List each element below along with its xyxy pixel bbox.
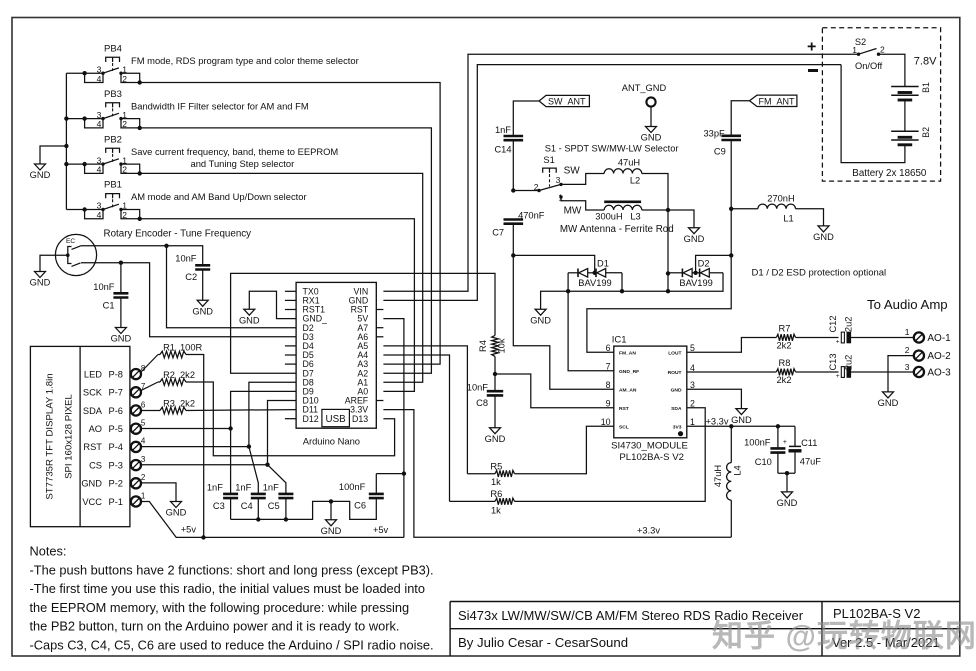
svg-text:Save current frequency, band,: Save current frequency, band, theme to E… — [131, 146, 338, 157]
svg-text:2: 2 — [690, 399, 695, 409]
svg-text:and Tuning Step selector: and Tuning Step selector — [191, 158, 295, 169]
wire LOUT to R7 — [687, 338, 777, 353]
svg-text:BAV199: BAV199 — [679, 278, 712, 288]
capacitor C5 1nF — [278, 494, 293, 498]
svg-text:P-7: P-7 — [109, 388, 123, 398]
inductor L2 47uH — [604, 169, 642, 174]
pushbutton PB1 — [66, 180, 306, 221]
svg-text:P-1: P-1 — [109, 497, 123, 507]
wire encoder A to Arduino D2 and C2 — [81, 246, 203, 265]
capacitor C8 10nF — [494, 374, 496, 391]
ground GND (C1) — [115, 328, 126, 334]
svg-text:2: 2 — [141, 473, 146, 482]
svg-text:-The first time you use this r: -The first time you use this radio, the … — [30, 581, 425, 596]
svg-text:PB4: PB4 — [104, 43, 122, 54]
resistor R5 1k — [467, 473, 495, 475]
connector pin P-6 of TFT — [131, 405, 141, 415]
svg-text:6: 6 — [141, 400, 146, 409]
svg-text:10: 10 — [601, 417, 611, 427]
svg-text:LED: LED — [84, 369, 102, 379]
wire P-4 to Arduino D8 and C4 — [141, 446, 249, 448]
connector pin P-5 of TFT — [131, 424, 141, 434]
ground GND (Arduino GND_) — [244, 309, 255, 315]
capacitor C3 1nF — [223, 494, 238, 498]
svg-text:Bandwidth IF Filter selector f: Bandwidth IF Filter selector for AM and … — [131, 100, 309, 111]
resistor R1 100R — [160, 351, 186, 358]
svg-text:GND: GND — [731, 415, 752, 425]
svg-text:C1: C1 — [103, 300, 115, 310]
svg-text:2: 2 — [880, 45, 885, 55]
svg-text:D1: D1 — [597, 259, 609, 269]
wire antenna node to ground — [668, 210, 694, 228]
svg-text:GND: GND — [878, 398, 899, 408]
capacitor C6 100nF — [369, 494, 384, 498]
svg-text:1: 1 — [690, 417, 695, 427]
svg-text:MW Antenna - Ferrite Rod: MW Antenna - Ferrite Rod — [560, 224, 674, 235]
svg-text:AO-2: AO-2 — [927, 351, 951, 362]
svg-text:D13: D13 — [352, 414, 368, 424]
svg-text:SDA: SDA — [83, 406, 103, 416]
wire IC1 GND pin3 to ground — [687, 389, 742, 408]
svg-text:EC: EC — [66, 238, 75, 245]
svg-text:2: 2 — [122, 74, 127, 84]
module U1 Arduino Nano — [285, 282, 384, 446]
wire R3 to Arduino D11 — [186, 409, 296, 412]
svg-text:C12: C12 — [828, 315, 838, 332]
svg-text:B2: B2 — [921, 127, 931, 138]
svg-text:100nF: 100nF — [339, 482, 366, 492]
svg-text:3: 3 — [556, 175, 561, 185]
wire battery minus to Arduino GND — [383, 65, 841, 301]
connector AO-1 — [914, 332, 924, 342]
svg-text:4: 4 — [97, 210, 102, 220]
svg-text:+: + — [836, 373, 840, 380]
wire P-6 to R3 — [141, 410, 160, 412]
svg-text:RST: RST — [619, 406, 629, 412]
svg-text:C5: C5 — [268, 501, 280, 511]
capacitor C9 33pF — [721, 136, 741, 140]
ground GND (IC1 pin3) — [736, 409, 747, 415]
svg-text:6: 6 — [606, 343, 611, 353]
wire C13 to AO-3 — [849, 371, 914, 373]
svg-text:S1: S1 — [543, 155, 554, 165]
svg-text:ST7735R TFT DISPLAY 1.8in: ST7735R TFT DISPLAY 1.8in — [45, 373, 56, 499]
inductor L1 270nH — [758, 204, 796, 209]
svg-text:SI4730_MODULE: SI4730_MODULE — [611, 441, 688, 452]
diode D2 BAV199 — [668, 272, 682, 274]
capacitor C14 1nF — [504, 136, 524, 140]
wire R6 to SDA of IC1 — [515, 408, 706, 502]
svg-text:3: 3 — [690, 380, 695, 390]
svg-text:2: 2 — [122, 119, 127, 129]
svg-text:C3: C3 — [213, 501, 225, 511]
capacitor C7 470nF — [504, 220, 524, 224]
svg-text:-The push buttons have 2 funct: -The push buttons have 2 functions: shor… — [30, 563, 434, 578]
net flag FM_ANT — [750, 95, 797, 106]
svg-text:SCK: SCK — [83, 388, 103, 398]
svg-text:the PB2 button, turn on the Ar: the PB2 button, turn on the Arduino powe… — [30, 619, 400, 634]
svg-text:+3.3v: +3.3v — [637, 526, 660, 536]
svg-text:GND: GND — [321, 526, 342, 536]
svg-text:CS: CS — [89, 460, 102, 470]
svg-text:AO: AO — [89, 424, 102, 434]
svg-text:RST: RST — [83, 442, 102, 452]
wire R5 to SCL of IC1 — [515, 426, 614, 473]
svg-text:Notes:: Notes: — [30, 544, 67, 559]
net flag SW_ANT — [539, 95, 589, 106]
svg-text:2k2: 2k2 — [777, 375, 792, 385]
svg-text:C6: C6 — [354, 500, 366, 510]
svg-text:AO-3: AO-3 — [927, 368, 951, 379]
svg-text:5: 5 — [141, 419, 146, 428]
svg-text:PL102BA-S V2: PL102BA-S V2 — [619, 452, 684, 463]
svg-text:5: 5 — [690, 343, 695, 353]
svg-text:GND: GND — [485, 434, 506, 444]
wire FM_ANT to C9 — [731, 101, 749, 136]
diode D1 BAV199 — [568, 272, 578, 274]
wire L2 to antenna node — [642, 174, 668, 292]
connector pin P-7 of TFT — [131, 387, 141, 397]
wire P-8 to R1 — [141, 355, 158, 373]
wire R2 to Arduino D13 — [186, 382, 395, 456]
connector AO-2 — [914, 351, 924, 361]
svg-text:300uH: 300uH — [595, 211, 622, 221]
switch S1 SPDT SW/MW-LW selector — [513, 144, 678, 217]
svg-text:1k: 1k — [491, 506, 501, 516]
svg-text:D1 / D2 ESD protection optiona: D1 / D2 ESD protection optional — [752, 268, 887, 279]
wire AO-2 to ground — [888, 356, 914, 392]
svg-text:2k2: 2k2 — [180, 370, 195, 380]
svg-text:10nF: 10nF — [93, 282, 115, 292]
connector pin P-2 of TFT — [131, 478, 141, 488]
ground GND (encoder) — [35, 272, 46, 278]
resistor R3 2k2 — [160, 407, 186, 414]
svg-text:P-4: P-4 — [109, 442, 123, 452]
svg-text:AM mode and AM Band Up/Down se: AM mode and AM Band Up/Down selector — [131, 191, 307, 202]
wire P-1 to +5v rail — [141, 502, 404, 538]
svg-text:GND: GND — [81, 479, 102, 489]
svg-text:3: 3 — [141, 455, 146, 464]
svg-text:33pF: 33pF — [703, 128, 725, 138]
wire S1 pin1 to L3 — [561, 197, 604, 210]
wire P-3 to Arduino D10 and C5 — [141, 464, 268, 466]
wire Arduino D7 to R4 — [231, 273, 495, 373]
capacitor C1 10nF — [113, 293, 128, 297]
IC U1 SI4730_MODULE PL102BA-S V2 — [601, 335, 695, 463]
svg-text:C8: C8 — [476, 398, 488, 408]
wire R4 to RST of IC1 — [495, 374, 614, 408]
wire FM node to FM_AN of IC1 — [587, 255, 731, 352]
capacitor C12 2u2 — [841, 332, 844, 343]
wire Arduino A4 to R6 — [383, 355, 449, 501]
ground GND (C2) — [197, 300, 208, 306]
wire P-5 to Arduino D9 and C3 — [141, 428, 231, 430]
svg-text:4: 4 — [97, 165, 102, 175]
svg-text:Arduino Nano: Arduino Nano — [303, 436, 360, 447]
wire Arduino GND_ pin to ground — [249, 291, 296, 318]
svg-text:+: + — [836, 339, 840, 346]
svg-text:C4: C4 — [241, 501, 253, 511]
svg-text:+: + — [783, 439, 787, 446]
wire C9 node to L1 — [731, 208, 758, 210]
svg-text:Rotary Encoder - Tune Frequenc: Rotary Encoder - Tune Frequency — [104, 229, 252, 240]
svg-text:R5: R5 — [490, 461, 502, 471]
svg-text:P-5: P-5 — [109, 424, 123, 434]
connector pin P-8 of TFT — [131, 369, 141, 379]
svg-text:L1: L1 — [783, 214, 793, 224]
wire S1 pin3 to L2 — [561, 174, 604, 185]
svg-text:1nF: 1nF — [235, 483, 251, 493]
wire encoder B to Arduino D3 and C1 — [81, 263, 296, 337]
svg-text:R2: R2 — [163, 370, 175, 380]
svg-text:47uH: 47uH — [713, 465, 723, 487]
svg-text:2u2: 2u2 — [844, 355, 854, 371]
capacitor C2 10nF — [195, 265, 210, 269]
svg-text:R4: R4 — [478, 340, 488, 352]
svg-text:MW: MW — [564, 205, 582, 216]
svg-text:P-6: P-6 — [109, 406, 123, 416]
resistor R6 1k — [450, 500, 496, 502]
capacitor C4 1nF — [251, 494, 266, 498]
wire capacitor ground rail — [231, 498, 377, 519]
svg-text:R6: R6 — [490, 489, 502, 499]
wire PB4 output to Arduino A3 — [140, 83, 440, 365]
resistor R8 2k2 — [776, 369, 795, 376]
svg-text:GND_RF: GND_RF — [619, 369, 639, 375]
svg-text:1k: 1k — [491, 477, 501, 487]
svg-text:2: 2 — [534, 182, 539, 192]
svg-text:4: 4 — [141, 437, 146, 446]
inductor L4 47uH — [727, 463, 732, 501]
svg-text:4: 4 — [97, 74, 102, 84]
wire C7 to D1 midpoint — [513, 255, 594, 272]
svg-text:2: 2 — [122, 210, 127, 220]
connector pin P-1 of TFT — [131, 496, 141, 506]
svg-text:GND: GND — [641, 133, 662, 143]
capacitor C10 100nF — [777, 426, 779, 448]
svg-text:FM_ANT: FM_ANT — [759, 96, 796, 106]
svg-text:100nF: 100nF — [744, 438, 771, 448]
svg-text:4: 4 — [690, 363, 695, 373]
svg-text:+5v: +5v — [181, 525, 197, 535]
svg-text:PB2: PB2 — [104, 134, 122, 145]
svg-text:GND: GND — [530, 315, 551, 325]
svg-text:SCL: SCL — [619, 424, 629, 430]
svg-text:C11: C11 — [801, 438, 817, 448]
svg-text:1: 1 — [852, 45, 857, 55]
pushbutton PB2 — [66, 134, 338, 175]
svg-text:270nH: 270nH — [767, 194, 794, 204]
switch S2 On/Off — [852, 37, 885, 71]
ground GND (L1) — [818, 226, 829, 232]
svg-text:-Caps C3, C4, C5, C6 are used: -Caps C3, C4, C5, C6 are used to reduce … — [30, 637, 434, 652]
battery B1 B2 2x18650 — [822, 28, 940, 181]
wire PB3 output to Arduino A2 — [140, 128, 432, 373]
svg-text:IC1: IC1 — [612, 335, 627, 346]
svg-text:7: 7 — [606, 362, 611, 372]
svg-text:C10: C10 — [755, 457, 772, 467]
pushbutton PB3 — [66, 89, 308, 130]
wire ROUT to R8 — [687, 371, 777, 373]
resistor R2 2k2 — [160, 379, 186, 386]
wire Arduino 3.3V to +3.3v rail — [383, 410, 731, 538]
svg-text:C13: C13 — [828, 353, 838, 370]
wire C10/C11 to ground — [778, 472, 795, 474]
connector pin P-4 of TFT — [131, 442, 141, 452]
svg-text:47uH: 47uH — [618, 157, 640, 167]
wire IC1 3V3 pin1 node — [687, 425, 795, 427]
svg-text:SDA: SDA — [671, 406, 682, 412]
connector AO-3 — [914, 367, 924, 377]
svg-text:AO-1: AO-1 — [927, 333, 951, 344]
svg-text:On/Off: On/Off — [855, 61, 883, 71]
svg-text:S1 - SPDT SW/MW-LW Selector: S1 - SPDT SW/MW-LW Selector — [545, 144, 679, 154]
svg-text:GND: GND — [166, 508, 187, 518]
svg-text:GND: GND — [777, 498, 798, 508]
svg-text:B1: B1 — [921, 82, 931, 93]
svg-text:+5v: +5v — [373, 525, 389, 535]
svg-text:1nF: 1nF — [495, 125, 511, 135]
resistor R4 10k — [492, 335, 499, 356]
svg-text:SW_ANT: SW_ANT — [548, 97, 586, 107]
svg-text:L3: L3 — [630, 211, 640, 221]
notes text block — [30, 544, 434, 653]
svg-text:P-8: P-8 — [109, 369, 123, 379]
svg-text:Battery 2x 18650: Battery 2x 18650 — [852, 168, 927, 179]
svg-text:ANT_GND: ANT_GND — [622, 83, 667, 93]
svg-text:GND: GND — [671, 387, 682, 393]
svg-text:1nF: 1nF — [207, 483, 223, 493]
svg-text:47uF: 47uF — [800, 457, 822, 467]
svg-text:P-2: P-2 — [109, 479, 123, 489]
svg-text:1: 1 — [905, 327, 910, 337]
svg-text:C14: C14 — [494, 145, 511, 155]
svg-text:R3: R3 — [163, 399, 175, 409]
svg-text:R7: R7 — [779, 324, 791, 334]
ground GND (C8) — [490, 428, 501, 434]
svg-text:知乎 @玩转物联网: 知乎 @玩转物联网 — [712, 619, 976, 654]
wire pushbutton ground bus — [65, 73, 67, 209]
svg-text:PB1: PB1 — [104, 180, 122, 191]
svg-text:BAV199: BAV199 — [578, 278, 611, 288]
svg-text:P-3: P-3 — [109, 460, 123, 470]
svg-text:R8: R8 — [779, 358, 791, 368]
svg-text:LOUT: LOUT — [668, 350, 681, 356]
wire P-2 to ground — [141, 483, 176, 502]
svg-text:10nF: 10nF — [175, 253, 197, 263]
svg-text:2u2: 2u2 — [844, 317, 854, 333]
svg-text:+: + — [807, 39, 816, 56]
svg-text:100R: 100R — [180, 343, 203, 353]
svg-text:C2: C2 — [185, 272, 197, 282]
wire Arduino A5 to R5 — [383, 346, 467, 474]
svg-text:2: 2 — [122, 165, 127, 175]
ground GND (pushbutton bus) — [35, 164, 46, 170]
svg-text:R1: R1 — [163, 343, 175, 353]
svg-text:FM_AN: FM_AN — [619, 350, 636, 356]
svg-text:GND: GND — [111, 334, 132, 344]
svg-text:8: 8 — [606, 380, 611, 390]
svg-text:AM_AN: AM_AN — [619, 387, 637, 393]
title block — [450, 602, 960, 657]
svg-text:SPI 160x128 PIXEL: SPI 160x128 PIXEL — [64, 393, 75, 478]
svg-text:ROUT: ROUT — [668, 370, 682, 376]
svg-text:the EEPROM memory, with the fo: the EEPROM memory, with the following pr… — [30, 600, 410, 615]
svg-text:GND: GND — [192, 307, 213, 317]
svg-text:+3.3v: +3.3v — [705, 417, 728, 427]
wire SW_ANT to C14 — [513, 101, 539, 136]
ground GND (AO-2) — [883, 392, 894, 398]
svg-text:10nF: 10nF — [467, 383, 489, 393]
capacitor C11 47uF — [794, 426, 796, 446]
svg-text:C9: C9 — [714, 147, 726, 157]
svg-text:GND: GND — [239, 315, 260, 325]
wire P-7 to R2 — [141, 382, 158, 391]
module TFT display ST7735R — [30, 346, 131, 526]
connector pin P-3 of TFT — [131, 460, 141, 470]
svg-text:GND: GND — [30, 278, 51, 288]
svg-text:SW: SW — [564, 165, 581, 176]
wire R8 to C13 — [796, 371, 839, 373]
svg-text:FM mode, RDS program type and: FM mode, RDS program type and color them… — [131, 55, 359, 66]
pushbutton PB4 — [66, 43, 358, 84]
wire ESD ground bus — [568, 273, 614, 371]
svg-text:C7: C7 — [492, 228, 504, 238]
svg-text:To Audio Amp: To Audio Amp — [867, 297, 948, 312]
svg-text:2k2: 2k2 — [180, 399, 195, 409]
wire C7 to AM_AN of IC1 — [513, 255, 614, 389]
svg-text:3: 3 — [905, 362, 910, 372]
svg-text:L4: L4 — [733, 465, 743, 475]
svg-text:10k: 10k — [497, 338, 507, 353]
wire C6 to +5v column — [376, 473, 404, 475]
svg-text:VCC: VCC — [82, 497, 102, 507]
wire PB2 output to Arduino A1 — [140, 173, 423, 382]
wire R1 to +5v rail — [186, 355, 204, 538]
ground GND (ANT_GND) — [646, 127, 657, 133]
capacitor C13 2u2 — [841, 367, 844, 378]
wire R7 to C12 — [796, 337, 839, 339]
svg-text:1: 1 — [141, 491, 146, 500]
wire L1 to ground — [796, 209, 824, 226]
svg-text:7.8V: 7.8V — [914, 55, 937, 67]
svg-text:GND: GND — [684, 234, 705, 244]
svg-text:USB: USB — [326, 414, 347, 425]
svg-text:D12: D12 — [303, 414, 319, 424]
svg-text:2: 2 — [905, 345, 910, 355]
wire Arduino 5V to +5v rail — [383, 319, 404, 538]
ground GND (C3-C6 rail) — [326, 520, 337, 526]
wire ANT_GND to ground — [650, 107, 652, 127]
svg-text:GND: GND — [813, 232, 834, 242]
svg-text:PB3: PB3 — [104, 89, 122, 100]
svg-text:L2: L2 — [630, 175, 640, 185]
ground GND (C10/C11) — [782, 492, 793, 498]
resistor R7 2k2 — [776, 334, 795, 341]
svg-text:D2: D2 — [698, 259, 710, 269]
inductor L3 300uH MW antenna — [604, 205, 642, 210]
wire encoder common to ground — [40, 255, 68, 271]
label - (battery negative) — [808, 69, 818, 72]
wire PB1 output to Arduino A0 — [140, 219, 415, 392]
wire +7.8V battery to Arduino VIN — [383, 54, 858, 291]
wire C12 to AO-1 — [849, 337, 914, 339]
svg-text:3V3: 3V3 — [673, 424, 682, 430]
ground GND (L2/L3) — [689, 228, 700, 234]
svg-text:1nF: 1nF — [263, 483, 279, 493]
svg-text:470nF: 470nF — [518, 210, 545, 220]
rotary encoder EC - Tune Frequency — [55, 229, 251, 276]
